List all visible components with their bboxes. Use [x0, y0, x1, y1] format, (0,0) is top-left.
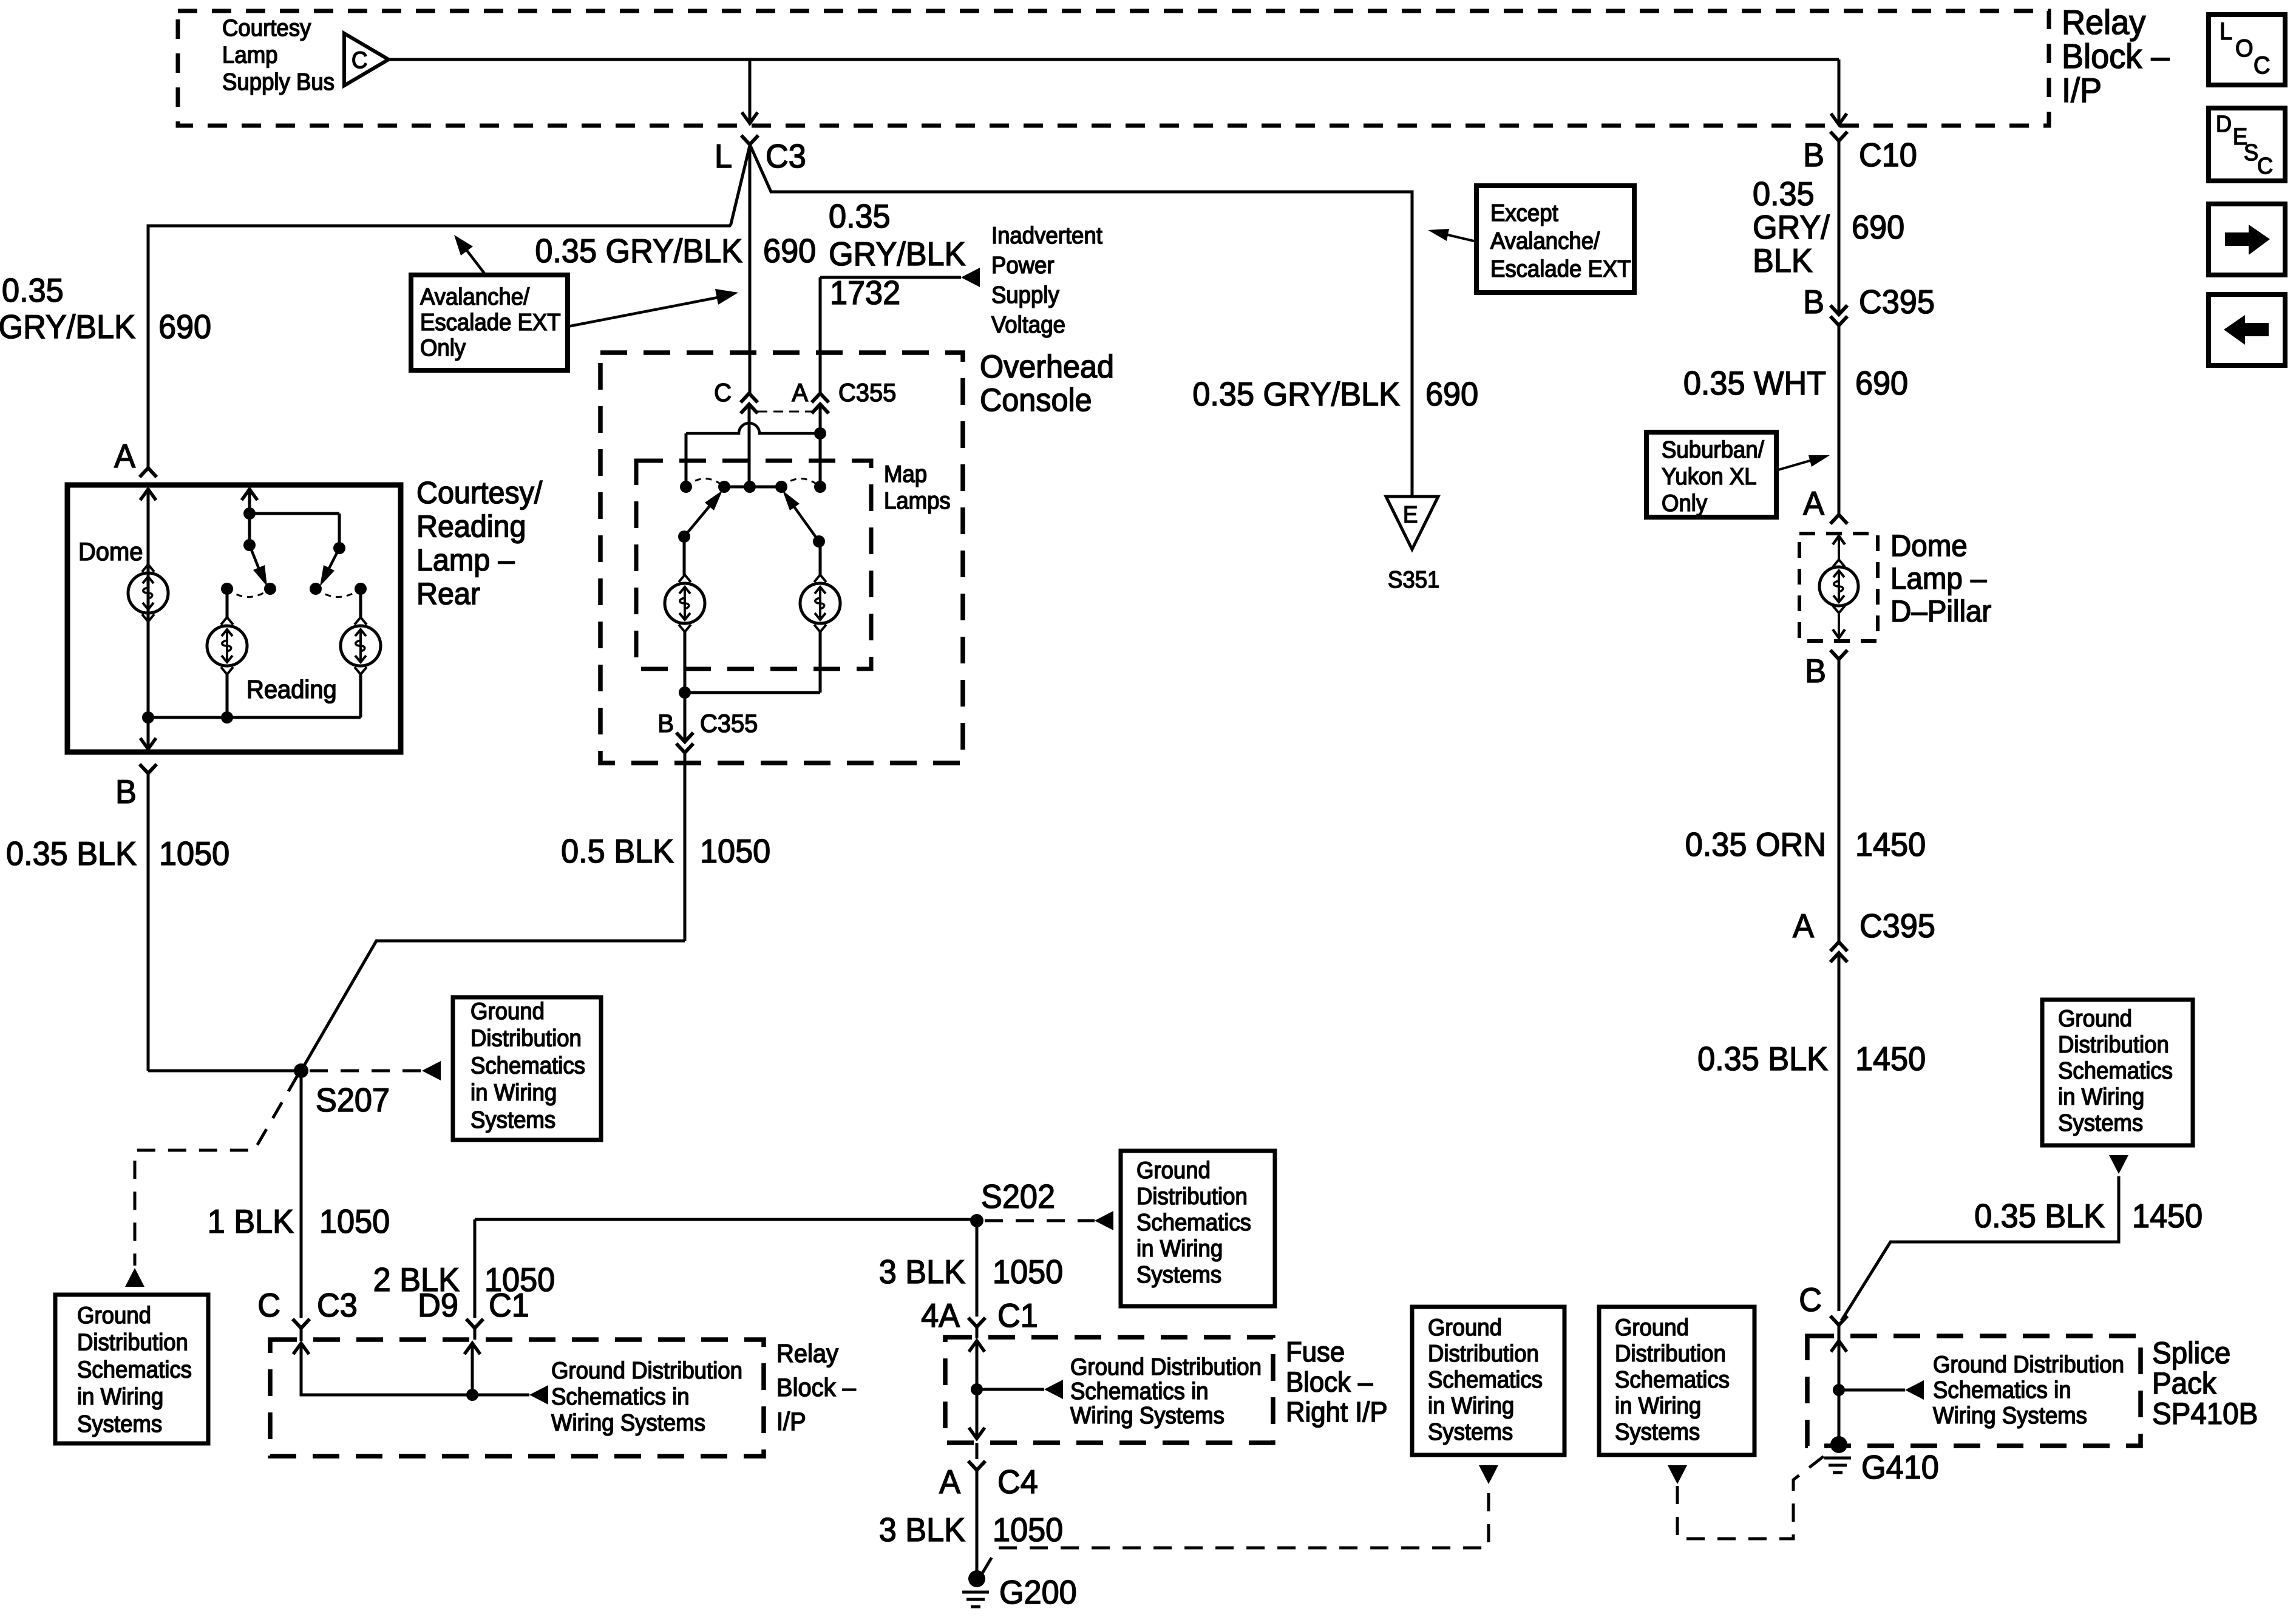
svg-text:4A: 4A	[921, 1297, 960, 1335]
svg-text:Schematics: Schematics	[1136, 1209, 1251, 1235]
svg-text:Splice: Splice	[2152, 1337, 2230, 1370]
svg-text:Avalanche/: Avalanche/	[1490, 228, 1600, 254]
svg-text:Schematics in: Schematics in	[551, 1383, 690, 1409]
svg-text:in Wiring: in Wiring	[77, 1383, 163, 1409]
svg-text:C: C	[352, 47, 367, 73]
svg-text:2 BLK: 2 BLK	[373, 1261, 460, 1299]
svg-text:1050: 1050	[484, 1261, 555, 1299]
svg-text:B: B	[1803, 137, 1824, 174]
svg-text:1050: 1050	[993, 1511, 1063, 1549]
svg-text:I/P: I/P	[776, 1407, 806, 1436]
svg-text:Avalanche/: Avalanche/	[420, 283, 530, 310]
svg-text:B: B	[657, 709, 674, 737]
svg-text:1050: 1050	[159, 835, 229, 873]
svg-text:Block –: Block –	[1286, 1366, 1373, 1397]
svg-text:Ground: Ground	[470, 998, 545, 1024]
svg-text:Dome: Dome	[1890, 529, 1968, 563]
svg-text:Systems: Systems	[77, 1411, 162, 1437]
svg-text:E: E	[1403, 501, 1418, 527]
svg-text:S207: S207	[316, 1082, 390, 1119]
svg-text:1450: 1450	[1855, 1040, 1926, 1078]
svg-text:Systems: Systems	[470, 1107, 555, 1133]
svg-text:B: B	[1805, 653, 1826, 690]
svg-text:690: 690	[158, 308, 211, 346]
svg-text:S: S	[2244, 139, 2258, 165]
svg-text:Wiring Systems: Wiring Systems	[1070, 1402, 1224, 1428]
svg-text:Block –: Block –	[2062, 37, 2170, 76]
svg-text:0.35 GRY/BLK: 0.35 GRY/BLK	[1192, 376, 1400, 413]
svg-text:C: C	[1799, 1281, 1822, 1319]
svg-text:Ground: Ground	[77, 1302, 151, 1328]
svg-text:Systems: Systems	[1428, 1419, 1513, 1445]
svg-text:A: A	[939, 1463, 960, 1501]
svg-text:S351: S351	[1388, 566, 1439, 592]
svg-text:Distribution: Distribution	[1136, 1183, 1248, 1209]
svg-text:Ground: Ground	[1428, 1314, 1502, 1340]
svg-text:in Wiring: in Wiring	[1136, 1235, 1223, 1261]
svg-text:0.35 BLK: 0.35 BLK	[1697, 1040, 1828, 1078]
svg-text:C4: C4	[997, 1463, 1038, 1501]
svg-text:C: C	[714, 378, 732, 407]
svg-text:C355: C355	[700, 709, 758, 737]
svg-text:1050: 1050	[319, 1203, 390, 1241]
svg-text:0.35: 0.35	[2, 272, 64, 310]
svg-text:Schematics in: Schematics in	[1933, 1377, 2071, 1403]
svg-text:Systems: Systems	[1136, 1261, 1221, 1287]
svg-text:Console: Console	[980, 382, 1092, 418]
svg-text:C10: C10	[1859, 137, 1917, 174]
svg-text:1 BLK: 1 BLK	[208, 1203, 294, 1241]
svg-text:Lamps: Lamps	[884, 487, 951, 514]
svg-text:BLK: BLK	[1753, 242, 1813, 280]
svg-text:Schematics: Schematics	[1428, 1366, 1543, 1392]
svg-text:in Wiring: in Wiring	[2058, 1083, 2144, 1110]
svg-text:Except: Except	[1490, 200, 1558, 226]
svg-text:Wiring Systems: Wiring Systems	[1933, 1402, 2087, 1428]
svg-text:A: A	[792, 378, 808, 407]
svg-text:0.35: 0.35	[1753, 175, 1815, 213]
svg-text:Escalade EXT: Escalade EXT	[420, 309, 561, 335]
svg-text:GRY/BLK: GRY/BLK	[829, 236, 966, 273]
svg-text:0.35 WHT: 0.35 WHT	[1683, 365, 1826, 402]
svg-text:Reading: Reading	[416, 509, 526, 543]
svg-text:Overhead: Overhead	[980, 348, 1114, 384]
svg-text:Systems: Systems	[1615, 1419, 1700, 1445]
svg-text:Ground Distribution: Ground Distribution	[551, 1357, 742, 1383]
svg-text:Supply: Supply	[991, 282, 1059, 308]
svg-text:3 BLK: 3 BLK	[879, 1253, 966, 1291]
svg-text:Lamp: Lamp	[222, 42, 277, 68]
svg-text:B: B	[1803, 283, 1824, 321]
svg-text:690: 690	[1855, 365, 1908, 402]
svg-text:C3: C3	[317, 1287, 358, 1324]
svg-text:3 BLK: 3 BLK	[879, 1511, 966, 1549]
svg-text:Wiring Systems: Wiring Systems	[551, 1409, 705, 1436]
svg-text:Voltage: Voltage	[991, 311, 1065, 337]
svg-text:Systems: Systems	[2058, 1110, 2143, 1136]
svg-text:Schematics: Schematics	[2058, 1057, 2173, 1083]
svg-text:Yukon XL: Yukon XL	[1662, 463, 1757, 489]
svg-text:C395: C395	[1860, 907, 1935, 945]
svg-text:SP410B: SP410B	[2152, 1397, 2258, 1431]
svg-text:1450: 1450	[2132, 1198, 2203, 1235]
svg-text:A: A	[1803, 485, 1824, 523]
svg-text:G410: G410	[1861, 1449, 1939, 1486]
svg-text:B: B	[115, 773, 137, 811]
svg-text:Relay: Relay	[2062, 3, 2146, 42]
svg-text:Suburban/: Suburban/	[1662, 436, 1764, 463]
svg-text:O: O	[2235, 35, 2254, 62]
svg-text:Courtesy/: Courtesy/	[416, 475, 542, 510]
svg-text:in Wiring: in Wiring	[1428, 1392, 1514, 1419]
svg-text:0.35 ORN: 0.35 ORN	[1685, 826, 1826, 864]
svg-text:Rear: Rear	[416, 576, 480, 611]
svg-text:Schematics: Schematics	[1615, 1366, 1730, 1392]
svg-text:C395: C395	[1859, 283, 1935, 321]
svg-text:Reading: Reading	[246, 675, 337, 703]
svg-text:L: L	[2220, 18, 2232, 45]
svg-text:C: C	[257, 1287, 280, 1324]
svg-text:Schematics: Schematics	[470, 1053, 585, 1079]
svg-text:690: 690	[763, 232, 816, 270]
svg-text:Courtesy: Courtesy	[222, 15, 311, 41]
svg-text:Pack: Pack	[2152, 1367, 2216, 1400]
svg-text:in Wiring: in Wiring	[1615, 1392, 1701, 1419]
svg-text:690: 690	[1852, 209, 1904, 246]
svg-text:I/P: I/P	[2062, 71, 2102, 110]
svg-text:1732: 1732	[830, 274, 900, 312]
svg-text:D–Pillar: D–Pillar	[1890, 595, 1991, 628]
svg-text:in Wiring: in Wiring	[470, 1079, 557, 1105]
svg-text:S202: S202	[981, 1178, 1055, 1216]
svg-text:Schematics: Schematics	[77, 1357, 192, 1383]
svg-text:1050: 1050	[700, 833, 770, 870]
svg-text:A: A	[1793, 907, 1814, 945]
svg-text:GRY/: GRY/	[1753, 209, 1830, 246]
svg-text:Distribution: Distribution	[2058, 1031, 2169, 1057]
svg-text:Ground: Ground	[1136, 1157, 1211, 1183]
svg-text:Ground Distribution: Ground Distribution	[1933, 1351, 2124, 1377]
svg-text:Lamp –: Lamp –	[1890, 562, 1987, 595]
svg-text:Only: Only	[1662, 490, 1707, 516]
svg-text:0.5 BLK: 0.5 BLK	[561, 833, 674, 870]
svg-text:0.35 GRY/BLK: 0.35 GRY/BLK	[535, 232, 742, 270]
svg-text:Distribution: Distribution	[1428, 1340, 1539, 1366]
svg-text:Block –: Block –	[776, 1373, 856, 1402]
svg-text:C1: C1	[997, 1297, 1038, 1335]
svg-text:Distribution: Distribution	[470, 1025, 582, 1051]
svg-text:Distribution: Distribution	[1615, 1340, 1726, 1366]
svg-text:Right I/P: Right I/P	[1286, 1396, 1388, 1428]
svg-text:Schematics in: Schematics in	[1070, 1378, 1209, 1404]
svg-text:Relay: Relay	[776, 1339, 838, 1368]
svg-text:Ground: Ground	[1615, 1314, 1689, 1340]
svg-text:Inadvertent: Inadvertent	[991, 222, 1102, 248]
svg-text:Lamp –: Lamp –	[416, 543, 515, 577]
svg-text:690: 690	[1425, 376, 1478, 413]
svg-text:0.35 BLK: 0.35 BLK	[6, 835, 137, 873]
svg-text:Power: Power	[991, 252, 1055, 278]
svg-text:0.35: 0.35	[829, 198, 891, 236]
svg-text:Ground: Ground	[2058, 1005, 2132, 1031]
svg-text:Only: Only	[420, 334, 466, 361]
svg-text:G200: G200	[999, 1574, 1077, 1612]
svg-text:C3: C3	[766, 138, 806, 175]
svg-text:Dome: Dome	[78, 537, 143, 566]
svg-text:Fuse: Fuse	[1286, 1336, 1345, 1368]
svg-text:A: A	[114, 438, 135, 475]
svg-text:Map: Map	[884, 461, 927, 487]
svg-text:0.35 BLK: 0.35 BLK	[1974, 1198, 2105, 1235]
svg-text:C: C	[2254, 52, 2270, 79]
svg-text:L: L	[715, 138, 732, 175]
svg-text:GRY/BLK: GRY/BLK	[0, 308, 135, 346]
svg-text:C355: C355	[838, 378, 896, 407]
svg-text:Supply Bus: Supply Bus	[222, 69, 335, 95]
svg-text:Distribution: Distribution	[77, 1329, 188, 1355]
svg-text:D: D	[2216, 110, 2232, 137]
svg-text:1450: 1450	[1855, 826, 1926, 864]
svg-text:1050: 1050	[993, 1253, 1063, 1291]
svg-text:C: C	[2257, 152, 2273, 178]
svg-text:Escalade EXT: Escalade EXT	[1490, 256, 1631, 282]
svg-text:Ground Distribution: Ground Distribution	[1070, 1354, 1262, 1380]
